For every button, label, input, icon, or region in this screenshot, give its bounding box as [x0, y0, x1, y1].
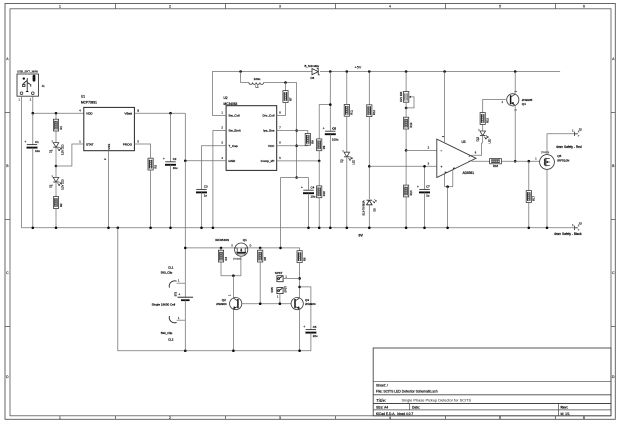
connector J2: [556, 127, 582, 148]
wire U2 pin7 row: [277, 130, 308, 132]
wire U2 pin3 to C3: [202, 146, 227, 190]
svg-text:100u: 100u: [254, 77, 261, 81]
capacitor C3: [196, 185, 208, 198]
resistor R8 box: [305, 133, 314, 145]
wire battery column upper: [184, 161, 186, 283]
wire RV1 top: [405, 72, 407, 92]
wire op-amp V+ from rail: [444, 72, 446, 144]
svg-text:R7: R7: [288, 97, 292, 101]
wire 0V bus: [22, 227, 575, 229]
wire R11 top: [346, 72, 348, 105]
wire U1 PROG to R3: [134, 144, 150, 158]
svg-text:Id: 1/1: Id: 1/1: [561, 412, 570, 416]
wire R17 to 0V bus: [528, 202, 530, 227]
wire R6 to Q3 collector: [299, 263, 301, 298]
svg-text:5: 5: [499, 416, 501, 420]
svg-text:C2: C2: [173, 157, 177, 161]
resistor R4 box: [218, 250, 227, 262]
svg-text:RV1 10K: RV1 10K: [399, 91, 403, 102]
svg-text:Sw_Emit: Sw_Emit: [228, 129, 240, 133]
node L1-R7 junction: [284, 81, 287, 84]
transistor Q2 2N3904: [230, 298, 242, 310]
wire R5 top stub: [259, 248, 261, 250]
svg-text:MCP73831: MCP73831: [81, 101, 97, 105]
svg-text:C3: C3: [204, 185, 208, 189]
svg-text:C6: C6: [332, 126, 336, 130]
wire R10 top: [318, 161, 320, 186]
svg-text:Rev:: Rev:: [561, 406, 568, 410]
wire Q5 drain to J2: [547, 134, 575, 155]
svg-text:T_Cap: T_Cap: [228, 144, 238, 148]
svg-text:2: 2: [169, 416, 171, 420]
title block: [373, 348, 611, 416]
svg-text:Q1: Q1: [243, 238, 247, 242]
wire C1 to 0V bus: [32, 148, 34, 228]
wire R8 bottom stub: [307, 144, 309, 147]
transistor Q4 2N3905: [507, 94, 519, 106]
svg-text:File: SCITS LED Detector Schem: File: SCITS LED Detector Schematic.sch: [376, 390, 438, 394]
svg-text:(TO220): (TO220): [233, 259, 241, 261]
wire C3 to 0V bus: [201, 192, 203, 227]
svg-text:VDD: VDD: [86, 112, 93, 116]
op U1 MCP73831: [79, 95, 139, 160]
svg-text:SPST: SPST: [285, 286, 288, 293]
wire output node row: [281, 177, 309, 179]
wire switch to Q3 collector row: [283, 277, 300, 279]
wire R4 to gate row: [220, 262, 222, 276]
svg-text:R12: R12: [372, 110, 376, 115]
node RV1 wiper junction: [405, 107, 408, 110]
wire U1 VBatt row: [134, 112, 185, 114]
wire op-amp output row: [472, 160, 490, 162]
capacitor C5: [303, 325, 318, 338]
wire R1 top stub: [55, 113, 57, 119]
wire Q1 gate route: [221, 256, 241, 276]
wire Q4 emitter to output row: [514, 106, 516, 161]
svg-text:LED: LED: [488, 138, 491, 143]
svg-text:C7: C7: [426, 185, 430, 189]
svg-text:+: +: [24, 140, 26, 144]
svg-text:AD8561: AD8561: [463, 171, 475, 175]
wire D5 to 0V bus: [368, 205, 370, 228]
svg-text:R14: R14: [409, 190, 413, 195]
svg-text:D12: D12: [476, 136, 479, 141]
svg-text:3.2V LED: 3.2V LED: [62, 179, 65, 190]
diode D6 B_Schottky: [305, 64, 320, 80]
svg-text:KiCad E.D.A. kicad 4.0.7: KiCad E.D.A. kicad 4.0.7: [376, 412, 413, 416]
battery clip CL2: [161, 300, 186, 341]
node Q4 emitter junction: [514, 160, 517, 163]
svg-text:R17: R17: [532, 195, 536, 200]
svg-text:0V: 0V: [359, 233, 364, 237]
svg-text:SW1: SW1: [271, 287, 274, 293]
node rail junctions: [329, 70, 332, 73]
resistor R2 box: [53, 197, 62, 209]
svg-text:R13: R13: [409, 122, 413, 127]
svg-text:R10: R10: [322, 191, 326, 196]
svg-text:J3: J3: [579, 221, 583, 225]
resistor R11 box: [344, 104, 353, 116]
wire C4 to 0V bus: [308, 193, 310, 228]
svg-text:+: +: [441, 165, 443, 169]
battery clip CL1: [161, 266, 186, 288]
node bottom bus junctions: [184, 349, 187, 352]
svg-text:R16: R16: [493, 164, 499, 168]
connector J3: [554, 221, 582, 235]
wire op-amp top pin to D12: [471, 143, 482, 155]
wire R4 top stub: [220, 248, 222, 250]
svg-text:6: 6: [583, 416, 585, 420]
wire U2 pin2 to 0V bus: [213, 131, 226, 228]
resistor R1 box: [53, 119, 62, 131]
node rail junctions: [184, 247, 187, 250]
resistor R14 box: [404, 185, 413, 197]
wire Q3 emitter to bottom bus: [299, 310, 301, 351]
LED D12: [476, 129, 491, 143]
svg-text:IRF9540N: IRF9540N: [215, 238, 229, 242]
wire U2 pin1 riser: [213, 72, 312, 116]
svg-text:+: +: [303, 325, 305, 329]
wire Q2 emitter to bottom bus: [232, 310, 234, 351]
svg-text:C1: C1: [35, 140, 39, 144]
svg-text:VSS: VSS: [107, 144, 111, 150]
wire CL1 to BT1: [184, 283, 186, 297]
svg-text:2: 2: [169, 5, 171, 9]
wire R15 to D12: [482, 124, 484, 131]
svg-text:R1: R1: [59, 126, 63, 130]
svg-text:R8: R8: [311, 140, 315, 144]
wire U2 pin4 GND row: [185, 160, 226, 162]
svg-text:VBatt: VBatt: [124, 112, 132, 116]
wire R10 to 0V bus: [318, 198, 320, 228]
svg-text:SPST: SPST: [275, 271, 283, 275]
svg-text:3: 3: [279, 416, 281, 420]
svg-text:4mm Safety - Black: 4mm Safety - Black: [554, 232, 582, 236]
node GND-battery junction: [184, 160, 187, 163]
op U2 MC34063: [221, 96, 281, 170]
resistor R3 box: [148, 158, 157, 170]
transistor Q3 2N3904: [291, 298, 303, 310]
wire +5V rail: [320, 71, 560, 73]
wire C6 top: [329, 72, 331, 132]
wire D3 to 0V bus: [346, 157, 348, 228]
svg-text:C5: C5: [313, 325, 317, 329]
node base row junctions: [259, 302, 262, 305]
wire R1 to D1: [55, 131, 57, 143]
wire R7 top stub: [285, 83, 287, 91]
battery BT1: [152, 283, 193, 306]
resistor R17 box: [526, 191, 535, 203]
wire C6 to 0V bus: [329, 134, 331, 228]
wire D12 to op-amp pin: [482, 136, 484, 143]
wire J1 pin2 down to VDD node: [32, 96, 34, 113]
node L1 top junction: [239, 70, 242, 73]
svg-text:C4: C4: [311, 185, 315, 189]
node R17 junction: [528, 160, 531, 163]
wire L1 node down to output node: [296, 83, 298, 178]
svg-text:CL2: CL2: [168, 338, 174, 342]
svg-text:Sheet: /: Sheet: /: [376, 383, 388, 387]
wire C2 to 0V bus: [170, 165, 172, 228]
svg-text:CL1: CL1: [168, 266, 174, 270]
wire op-amp pin3 row: [369, 165, 437, 167]
svg-text:+: +: [301, 186, 303, 190]
svg-text:+5V: +5V: [355, 66, 362, 70]
wire node to D2: [55, 166, 57, 177]
node C7 junction: [423, 165, 426, 168]
wire Q1 rail: [185, 248, 299, 251]
svg-text:BT1: BT1: [174, 291, 177, 296]
wire R16 to Q5 gate: [501, 160, 539, 162]
svg-text:R5: R5: [263, 257, 267, 261]
svg-text:U2: U2: [224, 96, 228, 100]
wire switch lower to base row: [279, 294, 281, 304]
wire R13 to pin2 node: [405, 129, 407, 150]
svg-text:STAT: STAT: [86, 143, 94, 147]
svg-text:SL3-70 862A: SL3-70 862A: [361, 200, 365, 215]
switch SW1 SPST: [271, 271, 288, 298]
resistor R9 box: [317, 139, 326, 151]
svg-text:D5: D5: [372, 208, 376, 212]
wire op-amp pin2 row: [406, 149, 437, 151]
node gate-Q2 junction: [232, 274, 235, 277]
node VBatt-C2 junction: [169, 112, 172, 115]
node pin2 junction: [405, 149, 408, 152]
wire R5 to base row: [259, 262, 261, 304]
wire C5 to bottom bus: [310, 333, 312, 351]
node switch junction: [298, 277, 301, 280]
wire R2 to 0V bus: [55, 208, 57, 227]
transistor Q1 IRF9540N: [215, 238, 251, 261]
svg-text:R3: R3: [153, 165, 157, 169]
svg-text:100u: 100u: [332, 138, 339, 142]
svg-text:R2: R2: [59, 203, 63, 207]
svg-text:L1: L1: [255, 85, 259, 89]
svg-text:R4: R4: [224, 257, 228, 261]
connector J1 USB_SKT_MINI: [17, 70, 45, 102]
svg-text:1: 1: [59, 416, 61, 420]
wire bottom return bus: [118, 228, 311, 351]
resistor R7 box: [283, 91, 292, 103]
resistor R5 box: [258, 250, 267, 262]
node C6 tap junction: [329, 103, 332, 106]
svg-text:GND: GND: [228, 159, 236, 163]
wire R14 to 0V bus: [405, 197, 407, 228]
wire C1 top: [32, 113, 34, 144]
svg-text:+: +: [163, 157, 165, 161]
wire op-amp gnd pins: [444, 174, 446, 187]
svg-text:J1: J1: [42, 84, 46, 88]
svg-text:Drv_Coll: Drv_Coll: [263, 114, 275, 118]
wire RV1 to R13: [405, 102, 407, 117]
svg-text:Size: A4: Size: A4: [376, 405, 388, 409]
wire U2 pin6 row: [277, 145, 308, 147]
svg-text:22u: 22u: [313, 334, 318, 338]
op-amp U3 AD8561: [428, 135, 477, 177]
wire Q2 collector riser: [232, 276, 234, 298]
wire battery feed down: [184, 113, 186, 161]
svg-text:R11: R11: [350, 109, 354, 114]
wire output down to Q1 rail: [280, 178, 282, 248]
svg-text:PROG: PROG: [123, 143, 133, 147]
wire op-amp gnd to 0V bus: [447, 187, 449, 228]
svg-text:U3: U3: [462, 140, 466, 144]
svg-text:590_Clip: 590_Clip: [161, 331, 173, 335]
svg-text:(TO220): (TO220): [541, 152, 549, 154]
wire C4 top: [308, 178, 310, 191]
svg-text:LED: LED: [352, 160, 355, 165]
svg-text:1: 1: [59, 5, 61, 9]
resistor R6 box: [297, 251, 306, 263]
wire Q5 source to 0V bus: [546, 169, 548, 227]
wire J1 pin1 to 0V bus: [21, 96, 23, 228]
wire pin2 node to R14: [405, 150, 407, 185]
wire CL2 to bottom bus: [184, 320, 186, 351]
svg-text:Ips_Sns: Ips_Sns: [263, 129, 275, 133]
LED D1: [50, 141, 65, 155]
photodiode D5 SL3-70 862A: [361, 199, 376, 215]
svg-text:J2: J2: [579, 127, 583, 131]
wire C5 branch row: [300, 287, 311, 330]
resistor R13 box: [404, 117, 413, 129]
svg-text:Q5: Q5: [557, 154, 561, 158]
svg-text:R9: R9: [322, 145, 326, 149]
wire R12 top: [368, 72, 370, 105]
wire R11 to D3: [346, 116, 348, 152]
svg-text:5: 5: [499, 5, 501, 9]
svg-text:10u: 10u: [173, 166, 178, 170]
wire C2 top: [170, 113, 172, 162]
svg-text:Sw_Coll: Sw_Coll: [228, 114, 240, 118]
svg-text:MC34063: MC34063: [224, 102, 238, 106]
node op-amp gnd merge: [446, 185, 449, 188]
wire D1 to STAT node: [55, 147, 57, 166]
svg-text:+: +: [178, 292, 180, 296]
node pin3 sensor junction: [368, 165, 371, 168]
svg-text:Date:: Date:: [412, 405, 420, 409]
wire R17 top: [528, 161, 530, 190]
resistor R12 box: [367, 105, 376, 117]
svg-text:4: 4: [389, 416, 391, 420]
node pin6 junction: [295, 144, 298, 147]
svg-text:USB_SKT_MINI: USB_SKT_MINI: [17, 70, 38, 74]
svg-text:R6: R6: [302, 257, 306, 261]
svg-text:B_Schottky: B_Schottky: [305, 64, 320, 68]
svg-text:Single Phase Pickup Detector f: Single Phase Pickup Detector for SCITS: [402, 398, 472, 403]
svg-text:10u: 10u: [35, 149, 40, 153]
resistor R16 box: [490, 159, 502, 169]
svg-text:4mm Safety - Red: 4mm Safety - Red: [556, 145, 582, 149]
svg-text:D6: D6: [311, 76, 315, 80]
svg-text:+: +: [417, 185, 419, 189]
LED D3: [340, 151, 355, 165]
resistor R15 box: [480, 113, 489, 125]
svg-text:U1: U1: [81, 95, 85, 99]
node pin7 junction: [295, 129, 298, 132]
inductor L1: [241, 72, 297, 89]
wire R9 to pin5 row: [318, 151, 320, 161]
resistor R10 box: [317, 186, 326, 198]
svg-text:2N3904: 2N3904: [216, 302, 227, 306]
svg-text:Single 18650 Cell: Single 18650 Cell: [152, 302, 176, 306]
wire R8 top stub: [307, 131, 309, 134]
node pin5-R9-R10 junction: [318, 160, 321, 163]
svg-text:+: +: [323, 127, 325, 131]
svg-text:−: −: [441, 149, 443, 153]
node output junction: [295, 176, 298, 179]
svg-text:590_Clip: 590_Clip: [161, 270, 173, 274]
wire U2 pin5 row: [277, 160, 320, 162]
svg-text:Q4: Q4: [522, 102, 526, 106]
node STAT junction: [55, 165, 58, 168]
wire Q4 collector to rail: [514, 72, 516, 94]
wire D2 to R2: [55, 182, 57, 197]
node VDD junction: [32, 112, 35, 115]
wire R12 to photodiode node: [368, 117, 370, 199]
svg-text:IRF510N: IRF510N: [557, 159, 569, 163]
wire C7 top: [424, 166, 426, 189]
svg-text:Title:: Title:: [376, 398, 387, 403]
wire C7 to 0V bus: [424, 192, 426, 227]
node 0V bus junctions: [32, 227, 35, 230]
wire VDD row to U1: [33, 112, 84, 114]
wire U1 VSS to 0V bus: [108, 151, 110, 228]
node C5 branch junction: [298, 286, 301, 289]
wire Q4 base row: [483, 99, 506, 112]
svg-text:Comp_I/P: Comp_I/P: [261, 159, 275, 163]
wire R3 to 0V bus: [150, 170, 152, 228]
wire BT1 to CL2: [184, 300, 186, 320]
svg-text:1n: 1n: [204, 194, 208, 198]
svg-text:10u: 10u: [311, 194, 316, 198]
svg-text:1u: 1u: [426, 194, 430, 198]
svg-text:6: 6: [583, 5, 585, 9]
wire Q2-Q3 base row: [242, 303, 292, 305]
svg-text:4: 4: [389, 5, 391, 9]
wire U1 STAT route: [56, 144, 84, 166]
svg-text:2N3904: 2N3904: [305, 302, 316, 306]
wire R7 to U2 pin8: [277, 102, 286, 115]
wire feedback tap: [319, 105, 330, 139]
svg-text:VCC: VCC: [268, 144, 275, 148]
svg-text:3: 3: [279, 5, 281, 9]
transistor Q5 IRF510N: [540, 155, 555, 170]
svg-text:R15: R15: [486, 117, 490, 122]
svg-text:3.2V LED: 3.2V LED: [62, 144, 65, 155]
